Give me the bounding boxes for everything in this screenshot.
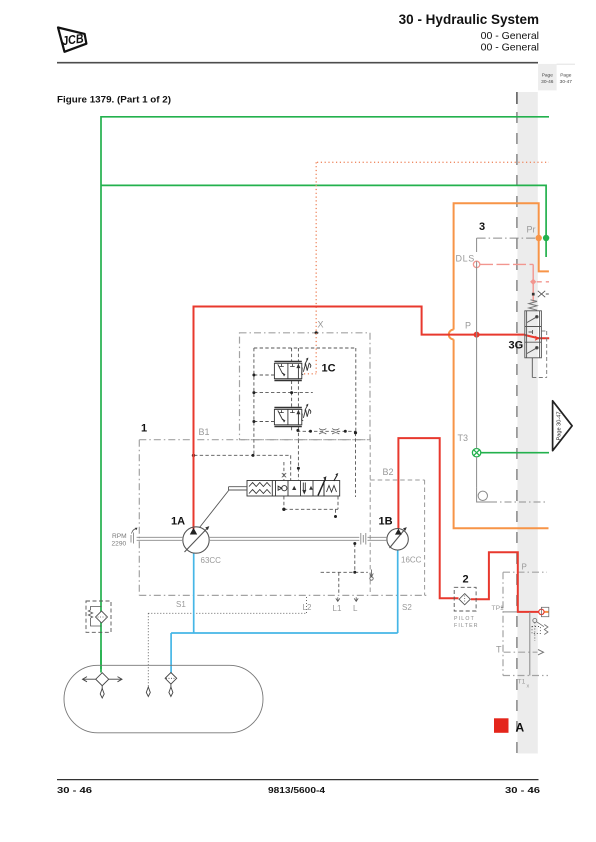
svg-text:TP1: TP1 (492, 605, 505, 612)
svg-text:RPM: RPM (112, 533, 127, 540)
svg-text:00 - General: 00 - General (481, 42, 539, 54)
svg-text:16CC: 16CC (401, 556, 422, 565)
svg-text:FILTER: FILTER (454, 623, 479, 629)
svg-text:3: 3 (479, 221, 485, 233)
svg-text:30 - 46: 30 - 46 (57, 785, 92, 795)
svg-text:T1: T1 (518, 679, 526, 686)
svg-text:A: A (516, 721, 525, 735)
svg-text:1C: 1C (322, 363, 336, 375)
svg-text:Figure 1379. (Part 1 of 2): Figure 1379. (Part 1 of 2) (57, 95, 171, 105)
svg-text:P: P (522, 563, 527, 572)
svg-text:Page: Page (542, 73, 554, 79)
svg-text:JCB: JCB (61, 31, 84, 48)
svg-text:DLS: DLS (456, 254, 475, 264)
svg-text:B2: B2 (383, 467, 394, 477)
svg-text:00 - General: 00 - General (481, 30, 539, 42)
svg-text:S1: S1 (176, 600, 186, 609)
svg-text:T: T (496, 645, 502, 655)
svg-text:Page: Page (560, 73, 572, 79)
svg-text:2290: 2290 (112, 541, 127, 548)
svg-text:L2: L2 (303, 603, 312, 612)
svg-text:1B: 1B (379, 516, 393, 528)
svg-text:L1: L1 (333, 604, 342, 613)
svg-text:S2: S2 (402, 603, 412, 612)
svg-text:30-46: 30-46 (541, 79, 554, 85)
svg-text:3G: 3G (509, 340, 524, 352)
svg-text:B1: B1 (199, 427, 210, 437)
svg-text:x: x (527, 684, 530, 690)
svg-text:PILOT: PILOT (454, 616, 475, 622)
svg-text:63CC: 63CC (201, 556, 222, 565)
svg-text:Page 30-47: Page 30-47 (557, 412, 563, 441)
svg-text:P: P (465, 321, 471, 331)
svg-text:2: 2 (463, 574, 469, 586)
svg-text:30 - 46: 30 - 46 (505, 785, 540, 795)
svg-text:Pr: Pr (527, 225, 536, 235)
svg-text:1: 1 (141, 423, 147, 435)
svg-text:9813/5600-4: 9813/5600-4 (268, 785, 325, 795)
svg-text:X: X (318, 320, 324, 330)
svg-text:L: L (353, 604, 358, 613)
svg-text:T3: T3 (458, 433, 469, 443)
svg-text:30 - Hydraulic System: 30 - Hydraulic System (399, 12, 539, 27)
svg-text:1A: 1A (171, 516, 185, 528)
svg-text:30-47: 30-47 (560, 79, 573, 85)
